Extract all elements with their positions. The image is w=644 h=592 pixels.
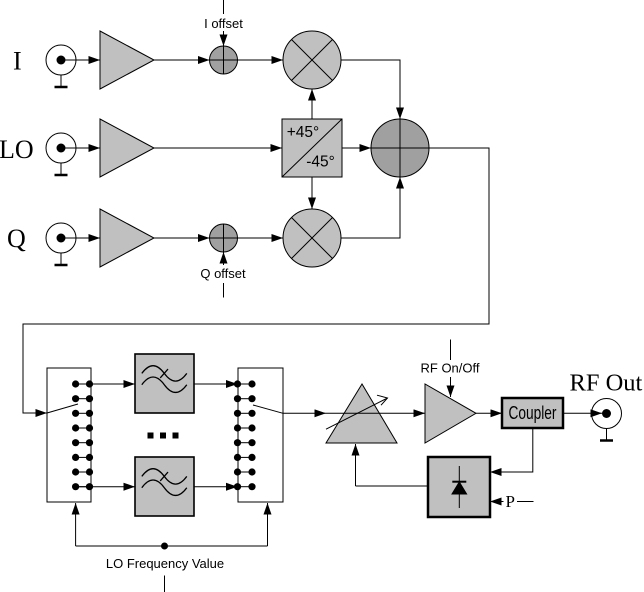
svg-text:LO Frequency Value: LO Frequency Value xyxy=(106,556,224,571)
svg-text:Q: Q xyxy=(7,224,26,253)
svg-text:LO: LO xyxy=(0,135,34,164)
svg-text:+45°: +45° xyxy=(287,124,320,141)
svg-text:I: I xyxy=(13,47,22,76)
svg-text:I offset: I offset xyxy=(204,16,243,31)
svg-text:RF On/Off: RF On/Off xyxy=(421,361,480,376)
svg-text:Coupler: Coupler xyxy=(509,402,557,423)
svg-text:RF Out: RF Out xyxy=(570,370,643,397)
svg-text:-45°: -45° xyxy=(306,154,335,171)
svg-text:Q offset: Q offset xyxy=(200,266,246,281)
svg-text:P: P xyxy=(506,492,515,511)
